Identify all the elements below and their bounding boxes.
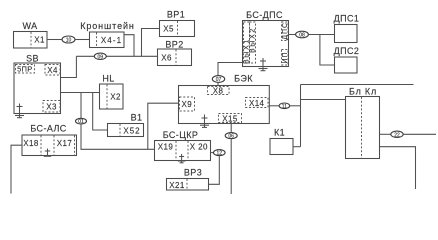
wire К1 to node — [293, 146, 301, 148]
svg-text:БЭК: БЭК — [234, 74, 253, 84]
svg-text:X17: X17 — [57, 139, 73, 148]
wire WA to connector 10 — [47, 39, 62, 41]
block ДПС1 — [334, 14, 360, 43]
svg-text:07: 07 — [216, 77, 222, 83]
block БС-АЛС — [22, 124, 77, 156]
svg-text:X4-1: X4-1 — [101, 36, 122, 45]
block WA — [14, 21, 48, 48]
connector X15 — [219, 114, 242, 124]
svg-text:11: 11 — [282, 104, 287, 110]
svg-text:X21: X21 — [169, 181, 185, 190]
wire connector 06 down — [230, 139, 232, 194]
svg-text:X8: X8 — [213, 87, 224, 96]
wire connector 08 to ДПС1 — [308, 34, 334, 36]
connector X4 — [45, 65, 60, 76]
wire connector 11 to node — [290, 105, 301, 107]
svg-text:X52: X52 — [123, 127, 140, 136]
svg-text:X19: X19 — [158, 143, 174, 152]
ground SB — [15, 104, 24, 118]
svg-text:X6: X6 — [161, 54, 172, 63]
block ВР1 — [160, 10, 195, 37]
connector X14 — [246, 98, 269, 108]
svg-text:09: 09 — [98, 54, 104, 60]
wire connector 01 to БС-ЦКР — [81, 124, 155, 149]
svg-text:ДПС1: ДПС1 — [334, 14, 360, 24]
wire SB X4 riser — [61, 56, 77, 77]
connector ИП — [282, 50, 290, 66]
wire БС-ДПС to connector 07 — [218, 63, 243, 76]
svg-text:ВР3: ВР3 — [184, 168, 202, 178]
connector X9 — [180, 97, 195, 111]
wire БС-ДПС to connector 08 — [289, 34, 296, 36]
svg-text:ВЫХ2: ВЫХ2 — [250, 27, 257, 53]
wire net 09 bus — [76, 55, 157, 57]
svg-text:Кронштейн: Кронштейн — [80, 21, 135, 31]
svg-text:X 20: X 20 — [190, 143, 208, 152]
wire БС-АЛС left down — [11, 145, 22, 193]
svg-text:ДПС2: ДПС2 — [334, 46, 360, 56]
svg-text:В1: В1 — [131, 113, 143, 123]
wire branch down through connector 01 — [80, 93, 82, 119]
svg-text:X1: X1 — [34, 36, 45, 45]
svg-text:БС-АЛС: БС-АЛС — [30, 124, 66, 134]
svg-text:К1: К1 — [274, 128, 285, 138]
ground БЭК — [200, 115, 209, 128]
connector symbol 09 — [94, 53, 106, 60]
block БС-ЦКР — [155, 130, 211, 161]
svg-text:X9: X9 — [182, 100, 193, 109]
svg-text:ВР2: ВР2 — [165, 40, 183, 50]
block Бл Кл — [346, 87, 380, 159]
wire riser to ВР1 — [142, 29, 160, 57]
svg-text:HL: HL — [102, 74, 114, 84]
connector ДПС — [282, 22, 290, 41]
svg-text:X14: X14 — [249, 99, 265, 108]
block Кронштейн — [80, 21, 135, 48]
wire БС-ЦКР to connector 12 — [211, 152, 220, 154]
connector symbol 06 — [225, 133, 237, 140]
block В1 — [108, 113, 144, 137]
block ВР2 — [158, 40, 192, 66]
ground БС-ДПС — [259, 58, 268, 71]
ground БС-АЛС — [44, 149, 51, 157]
svg-text:10: 10 — [66, 38, 72, 44]
connector symbol 12 — [214, 150, 226, 157]
connector ВЫХ2 — [250, 22, 257, 63]
svg-text:SB: SB — [26, 54, 39, 64]
wire БЭК X9 to net — [148, 103, 179, 149]
svg-text:ИП: ИП — [282, 51, 289, 63]
svg-text:X15: X15 — [222, 114, 238, 123]
wire БЭК X14 to connector 11 — [269, 105, 279, 107]
svg-text:БС-ЦКР: БС-ЦКР — [163, 130, 199, 140]
svg-text:Бл Кл: Бл Кл — [349, 87, 377, 97]
connector 5ПР — [16, 65, 35, 74]
block ДПС2 — [334, 46, 360, 73]
ground БС-ЦКР — [178, 154, 186, 163]
wire connector 12 to ВР3 — [209, 156, 220, 185]
wire branch to ДПС2 — [320, 35, 335, 66]
svg-text:БС-ДПС: БС-ДПС — [246, 10, 283, 20]
wire Бл Кл lower right — [380, 147, 416, 189]
svg-text:X5: X5 — [163, 25, 174, 34]
block БЭК — [179, 74, 270, 124]
wire Бл Кл to connector 22 — [380, 133, 391, 135]
connector X3 — [43, 101, 60, 113]
wire connector 10 to Кронштейн — [75, 39, 90, 41]
svg-text:ВР1: ВР1 — [167, 10, 185, 20]
block ВР3 — [167, 168, 209, 191]
svg-text:X18: X18 — [23, 139, 39, 148]
connector symbol 07 — [212, 76, 224, 84]
block БС-ДПС — [243, 10, 289, 67]
block SB — [14, 54, 61, 114]
wire connector 07 to БЭК X8 — [217, 82, 219, 85]
wire БЭК X15 down — [230, 124, 232, 133]
svg-text:5ПР: 5ПР — [17, 65, 32, 74]
block К1 — [270, 128, 293, 155]
wire top horizontal — [301, 84, 414, 86]
wire branch down to В1 — [93, 93, 108, 131]
wire connector 22 right — [403, 133, 436, 135]
connector X8 — [208, 87, 230, 96]
svg-text:22: 22 — [394, 132, 400, 138]
connector symbol 10 — [62, 36, 75, 44]
wire SB to HL — [61, 92, 100, 94]
wire Кронштейн to net 09 — [124, 35, 134, 57]
wire node vertical — [300, 85, 302, 147]
connector symbol 08 — [296, 31, 309, 38]
block HL — [100, 74, 124, 110]
connector ВЫХ1 — [244, 22, 251, 64]
svg-text:X4: X4 — [47, 66, 58, 75]
svg-text:08: 08 — [299, 33, 305, 39]
connector symbol 22 — [391, 131, 403, 138]
svg-text:WA: WA — [23, 21, 38, 31]
connector symbol 11 — [279, 103, 290, 110]
svg-text:ДПС: ДПС — [282, 22, 289, 40]
wire node to Бл Кл — [301, 99, 346, 101]
svg-text:X3: X3 — [46, 103, 57, 112]
svg-text:X2: X2 — [110, 93, 121, 102]
connector symbol 01 — [76, 118, 87, 125]
